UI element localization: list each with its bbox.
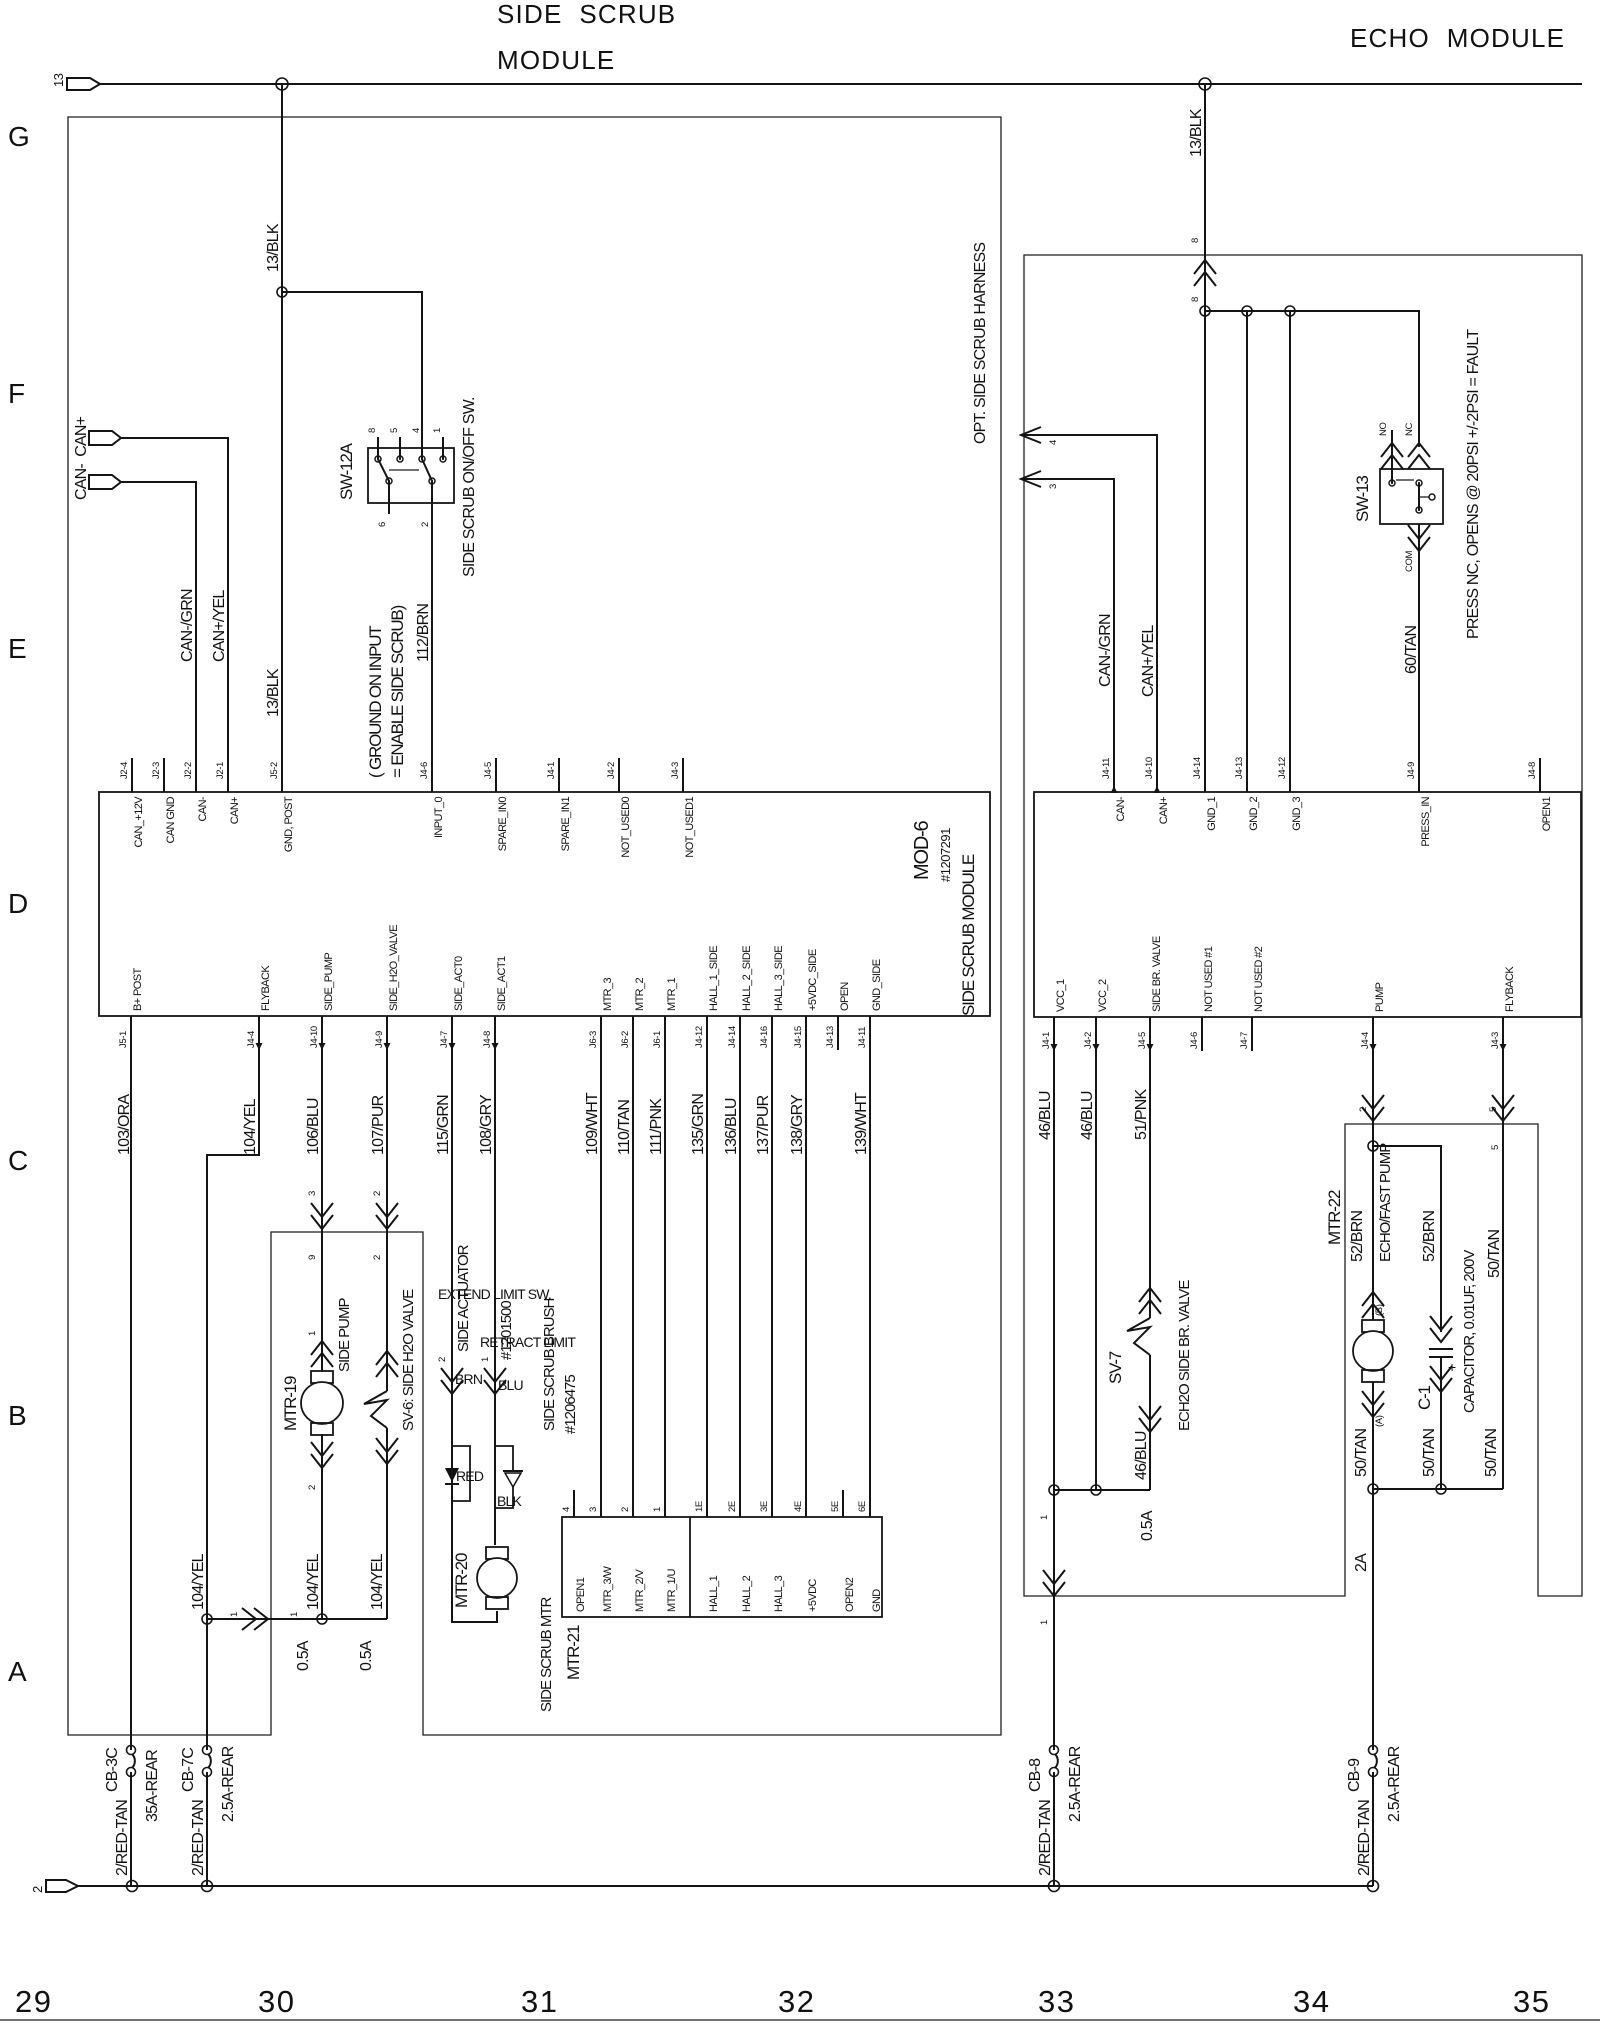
svg-text:J5-1: J5-1: [118, 1031, 129, 1048]
connector chevron below MTR-22: [1362, 1391, 1384, 1417]
SW-12A pin 4 stub: [421, 437, 423, 459]
svg-text:( GROUND ON INPUT: ( GROUND ON INPUT: [366, 626, 385, 778]
svg-text:OPEN: OPEN: [839, 982, 851, 1011]
wire 51/PNK J4-5 to SV-7: [1149, 1017, 1151, 1318]
wire 137/PUR: [771, 1016, 773, 1490]
svg-text:J5-2: J5-2: [269, 762, 280, 779]
connector chevron 106/BLU at pump box: [311, 1203, 333, 1229]
SW-13 NO stub: [1391, 430, 1393, 483]
svg-text:SW-12A: SW-12A: [337, 442, 356, 500]
svg-text:35: 35: [1513, 1984, 1550, 2019]
svg-text:B: B: [8, 1400, 27, 1431]
MOD-6 pin J4-4 (FLYBACK): [258, 1016, 260, 1050]
svg-text:(A): (A): [1374, 1415, 1385, 1427]
svg-text:0.5A: 0.5A: [1139, 1510, 1156, 1541]
svg-text:SIDE BR. VALVE: SIDE BR. VALVE: [1151, 936, 1163, 1012]
svg-text:SIDE SCRUB ON/OFF SW.: SIDE SCRUB ON/OFF SW.: [461, 397, 478, 577]
connector chevron above MTR-22: [1362, 1292, 1384, 1318]
diode BLK bypass branch: [495, 1446, 513, 1471]
svg-text:CAN+: CAN+: [1158, 797, 1170, 824]
wire 46/BLU J4-1 down: [1053, 1017, 1055, 1490]
svg-text:J4-2: J4-2: [1083, 1032, 1094, 1049]
svg-text:3: 3: [588, 1507, 599, 1512]
svg-text:CAN+: CAN+: [229, 797, 241, 824]
svg-text:MTR-20: MTR-20: [452, 1553, 471, 1608]
svg-text:138/GRY: 138/GRY: [789, 1094, 806, 1155]
svg-text:2: 2: [30, 1886, 45, 1893]
connector chevron below SV-6: [376, 1438, 398, 1464]
svg-text:J4-8: J4-8: [482, 1031, 493, 1048]
svg-text:PRESS NC, OPENS @ 20PSI +/-2PS: PRESS NC, OPENS @ 20PSI +/-2PSI = FAULT: [1465, 329, 1482, 639]
svg-text:NC: NC: [1404, 423, 1415, 436]
svg-text:J4-9: J4-9: [374, 1031, 385, 1048]
terminal CAN+ ring: [89, 431, 121, 445]
boundary box echo harness: [1024, 255, 1582, 1596]
ECHO pin J4-5 (SIDE BR. VALVE): [1149, 1017, 1151, 1051]
svg-text:SW-13: SW-13: [1353, 476, 1372, 522]
svg-text:1: 1: [480, 1357, 491, 1362]
MTR-21 pin 4 (OPEN1): [573, 1490, 575, 1517]
svg-text:J6-1: J6-1: [652, 1031, 663, 1048]
svg-text:J4-13: J4-13: [1234, 757, 1245, 779]
svg-text:CAN GND: CAN GND: [165, 796, 177, 843]
svg-text:135/GRN: 135/GRN: [690, 1094, 707, 1155]
ECHO pin J4-14 (GND_1): [1204, 758, 1206, 792]
svg-text:139/WHT: 139/WHT: [853, 1092, 870, 1155]
MOD-6 pin J2-1 (CAN+): [227, 758, 229, 792]
svg-text:52/BRN: 52/BRN: [1349, 1211, 1366, 1262]
wire 106/BLU J4-10 to MTR-19: [321, 1016, 323, 1372]
svg-text:8: 8: [1190, 297, 1201, 302]
MTR-21 pin 2E (HALL_2): [739, 1490, 741, 1517]
junction node VCC_1: [1049, 1485, 1059, 1495]
svg-text:1: 1: [229, 1612, 240, 1617]
svg-text:CB-8: CB-8: [1027, 1758, 1044, 1792]
svg-text:C: C: [8, 1145, 28, 1176]
junction node on net 13 at 13/BLK left drop: [276, 78, 288, 90]
svg-text:110/TAN: 110/TAN: [616, 1100, 633, 1155]
svg-text:PUMP: PUMP: [1374, 982, 1386, 1012]
svg-text:J6-3: J6-3: [588, 1031, 599, 1048]
module ECHO box: [1034, 792, 1581, 1017]
svg-text:J4-12: J4-12: [694, 1026, 705, 1048]
svg-text:112/BRN: 112/BRN: [415, 604, 432, 662]
SW-13 NC wire entry: [1408, 443, 1430, 469]
MOD-6 pin J6-1 (MTR_1): [664, 1016, 666, 1050]
svg-text:1: 1: [652, 1507, 663, 1512]
svg-text:CB-7C: CB-7C: [180, 1748, 197, 1792]
svg-text:SPARE_IN1: SPARE_IN1: [560, 797, 572, 852]
svg-text:2A: 2A: [1353, 1553, 1370, 1572]
svg-text:J4-14: J4-14: [1192, 757, 1203, 779]
motor MTR-20 brush deck actuator: [486, 1547, 508, 1559]
connector MTR-21 box: [562, 1517, 882, 1617]
svg-text:HALL_3_SIDE: HALL_3_SIDE: [773, 946, 785, 1011]
solenoid valve SV-7 coil: [1127, 1318, 1150, 1355]
svg-text:2: 2: [420, 522, 431, 527]
svg-text:SIDE_ACT1: SIDE_ACT1: [496, 956, 508, 1011]
svg-text:CAPACITOR, 0.01UF, 200V: CAPACITOR, 0.01UF, 200V: [1461, 1250, 1478, 1413]
svg-text:RED: RED: [456, 1468, 484, 1484]
svg-text:6E: 6E: [857, 1501, 868, 1512]
wire gnd distribution row: [1205, 311, 1419, 447]
MOD-6 pin J4-1 (SPARE_IN1): [558, 758, 560, 792]
svg-text:109/WHT: 109/WHT: [584, 1092, 601, 1155]
ECHO pin J4-12 (GND_3): [1289, 758, 1291, 792]
MOD-6 pin J4-11 (GND_SIDE): [869, 1016, 871, 1050]
wire 2/RED-TAN below CB-9: [1372, 1772, 1374, 1886]
svg-text:VCC_2: VCC_2: [1097, 979, 1109, 1012]
svg-text:2: 2: [307, 1485, 318, 1490]
svg-text:J2-2: J2-2: [183, 762, 194, 779]
svg-text:31: 31: [521, 1984, 558, 2019]
svg-text:MTR_3/W: MTR_3/W: [602, 1565, 614, 1612]
svg-text:2/RED-TAN: 2/RED-TAN: [190, 1800, 207, 1876]
svg-text:GND_SIDE: GND_SIDE: [871, 959, 883, 1011]
svg-text:2: 2: [620, 1507, 631, 1512]
svg-text:J4-7: J4-7: [1239, 1032, 1250, 1049]
MOD-6 pin J4-14 (HALL_2_SIDE): [739, 1016, 741, 1050]
svg-text:50/TAN: 50/TAN: [1486, 1230, 1503, 1279]
svg-text:BLU: BLU: [498, 1377, 524, 1393]
svg-text:13: 13: [51, 73, 66, 87]
SW-12A pin 6 stub wire: [388, 481, 390, 514]
wire 108/GRY J4-8 actuator retract: [494, 1016, 496, 1446]
MOD-6 pin J4-2 (NOT_USED0): [618, 758, 620, 792]
wire net 13 horizontal bus: [100, 83, 1582, 85]
svg-text:J4-11: J4-11: [1101, 758, 1112, 779]
svg-text:GND_1: GND_1: [1206, 797, 1218, 831]
svg-text:FLYBACK: FLYBACK: [1504, 966, 1516, 1012]
svg-text:CAN_+12V: CAN_+12V: [133, 796, 145, 848]
svg-text:NOT_USED1: NOT_USED1: [684, 797, 696, 858]
svg-text:SPARE_IN0: SPARE_IN0: [497, 797, 509, 852]
svg-text:F: F: [8, 378, 25, 409]
MOD-6 pin J4-6 (INPUT_0): [431, 758, 433, 792]
terminal CAN- ring: [89, 475, 121, 489]
svg-text:GND_2: GND_2: [1248, 797, 1260, 831]
SW-13 terminals: [1389, 480, 1395, 486]
svg-text:SIDE SCRUB: SIDE SCRUB: [497, 0, 676, 29]
svg-text:2: 2: [437, 1357, 448, 1362]
wire 50/TAN capacitor return: [1440, 1357, 1442, 1489]
svg-text:CB-3C: CB-3C: [104, 1748, 121, 1792]
svg-text:J4-7: J4-7: [439, 1031, 450, 1048]
ECHO pin J4-7 (NOT USED #2): [1251, 1017, 1253, 1051]
svg-text:32: 32: [778, 1984, 815, 2019]
svg-text:BRN: BRN: [455, 1371, 482, 1387]
junction row 46/BLU: [1054, 1489, 1150, 1491]
svg-text:J4-3: J4-3: [1490, 1032, 1501, 1049]
svg-text:104/YEL: 104/YEL: [190, 1553, 207, 1610]
svg-text:5: 5: [389, 428, 400, 433]
connector chevron 107/PUR above SV-6: [376, 1351, 398, 1377]
boundary box OPT. SIDE SCRUB HARNESS: [68, 117, 1001, 1735]
svg-text:13/BLK: 13/BLK: [1188, 108, 1205, 157]
svg-text:COM: COM: [1404, 551, 1415, 572]
svg-text:50/TAN: 50/TAN: [1353, 1429, 1370, 1478]
svg-text:OPT. SIDE SCRUB HARNESS: OPT. SIDE SCRUB HARNESS: [972, 243, 989, 444]
svg-text:J4-2: J4-2: [606, 762, 617, 779]
wire 107/PUR J4-9 to SV-6: [386, 1016, 388, 1391]
junction node C-1 return: [1436, 1484, 1446, 1494]
svg-text:C-1: C-1: [1415, 1385, 1434, 1410]
SW-13 actuator lever: [1419, 496, 1429, 498]
connector chevron below C-1: [1430, 1366, 1452, 1392]
svg-text:2: 2: [372, 1191, 383, 1196]
wire 50/TAN MTR-22 return: [1372, 1382, 1374, 1489]
svg-text:51/PNK: 51/PNK: [1133, 1089, 1150, 1140]
svg-text:E: E: [8, 633, 27, 664]
svg-text:J4-1: J4-1: [546, 762, 557, 779]
svg-text:J4-14: J4-14: [727, 1026, 738, 1048]
wire 109/WHT: [600, 1016, 602, 1490]
svg-text:115/GRN: 115/GRN: [435, 1095, 452, 1155]
MOD-6 pin J5-1 (B+ POST): [130, 1016, 132, 1050]
svg-text:SIDE_ACT0: SIDE_ACT0: [453, 956, 465, 1011]
svg-text:4E: 4E: [793, 1501, 804, 1512]
svg-text:1: 1: [1039, 1515, 1050, 1520]
ECHO pin J4-8 (OPEN1): [1539, 758, 1541, 792]
wire CAN-/GRN from terminal to J2-2: [121, 482, 196, 758]
svg-text:J4-15: J4-15: [793, 1026, 804, 1048]
junction node VCC_2: [1091, 1485, 1101, 1495]
svg-text:3: 3: [1048, 484, 1059, 489]
wire 103/ORA J5-1 to CB-3C: [130, 1016, 132, 1750]
svg-text:J4-6: J4-6: [419, 762, 430, 779]
svg-text:1: 1: [432, 428, 443, 433]
svg-text:MTR-19: MTR-19: [281, 1376, 300, 1431]
svg-text:1E: 1E: [694, 1501, 705, 1512]
svg-text:13/BLK: 13/BLK: [265, 223, 282, 272]
breaker CB-8 2.5A-REAR: [1050, 1746, 1059, 1755]
svg-text:104/YEL: 104/YEL: [242, 1098, 259, 1155]
svg-text:MTR_2: MTR_2: [634, 977, 646, 1011]
wire 2A to CB-9: [1372, 1489, 1374, 1750]
svg-text:MTR_3: MTR_3: [602, 977, 614, 1011]
connector chevron 107/PUR at pump box: [376, 1203, 398, 1229]
SW-12A blade pole 2: [422, 459, 432, 481]
junction node net2 CB-8: [1049, 1881, 1060, 1892]
svg-text:35A-REAR: 35A-REAR: [144, 1750, 161, 1822]
svg-text:4: 4: [1048, 440, 1059, 445]
junction node at MTR-19 return: [317, 1614, 327, 1624]
svg-text:J4-8: J4-8: [1527, 762, 1538, 779]
svg-text:137/PUR: 137/PUR: [755, 1095, 772, 1155]
svg-text:107/PUR: 107/PUR: [370, 1095, 387, 1155]
wire FLYBACK J4-3 down: [1502, 1017, 1504, 1489]
net 13 source flag: [67, 78, 100, 90]
svg-text:CAN+/YEL: CAN+/YEL: [211, 590, 228, 662]
connector chevron above SV-7: [1139, 1288, 1161, 1314]
breaker CB-9 2.5A-REAR: [1369, 1746, 1378, 1755]
motor MTR-22 echo/fast pump: [1362, 1320, 1384, 1332]
MOD-6 pin J4-16 (HALL_3_SIDE): [771, 1016, 773, 1050]
svg-text:103/ORA: 103/ORA: [116, 1094, 133, 1155]
MTR-21 pin 3 (MTR_3/W): [600, 1490, 602, 1517]
svg-text:HALL_1: HALL_1: [708, 1575, 720, 1612]
svg-text:46/BLU: 46/BLU: [1133, 1431, 1150, 1480]
svg-text:VCC_1: VCC_1: [1055, 979, 1067, 1012]
svg-text:108/GRY: 108/GRY: [478, 1094, 495, 1155]
svg-text:CAN-/GRN: CAN-/GRN: [1097, 614, 1114, 687]
svg-text:50/TAN: 50/TAN: [1421, 1429, 1438, 1478]
SW-12A pin 8 stub: [377, 437, 379, 459]
wire extend to MTR-20 bottom: [452, 1446, 497, 1622]
MTR-21 pin 2 (MTR_2/V): [632, 1490, 634, 1517]
diode RED bypass loop: [452, 1446, 470, 1501]
MOD-6 pin J6-3 (MTR_3): [600, 1016, 602, 1050]
svg-text:J4-4: J4-4: [1360, 1032, 1371, 1049]
wire MTR-19 return to row: [321, 1434, 323, 1619]
wire 2/RED-TAN below CB-8: [1053, 1772, 1055, 1886]
junction node gnd row at 13/BLK: [1200, 306, 1210, 316]
svg-text:0.5A: 0.5A: [358, 1640, 375, 1671]
svg-text:1: 1: [289, 1612, 300, 1617]
svg-text:J2-4: J2-4: [119, 762, 130, 779]
svg-text:HALL_2_SIDE: HALL_2_SIDE: [741, 946, 753, 1011]
svg-text:OPEN2: OPEN2: [844, 1577, 856, 1612]
svg-text:SIDE SCRUB BRUSH: SIDE SCRUB BRUSH: [541, 1298, 558, 1431]
connector chevron below SV-7: [1139, 1406, 1161, 1432]
MTR-21 pin 6E (GND): [869, 1490, 871, 1517]
svg-text:33: 33: [1038, 1984, 1075, 2019]
svg-text:= ENABLE SIDE SCRUB): = ENABLE SIDE SCRUB): [388, 605, 407, 778]
svg-text:J4-16: J4-16: [759, 1026, 770, 1048]
svg-text:5E: 5E: [830, 1501, 841, 1512]
connector chevron PUMP into pump assy: [1362, 1095, 1384, 1121]
MOD-6 pin J4-7 (SIDE_ACT0): [451, 1016, 453, 1050]
svg-text:111/PNK: 111/PNK: [648, 1098, 665, 1155]
ECHO pin J4-2 (VCC_2): [1095, 1017, 1097, 1051]
capacitor C-1: [1429, 1348, 1453, 1350]
SW-12A pin 2 wire 112/BRN to MOD-6 J4-6: [431, 481, 433, 758]
svg-text:B+ POST: B+ POST: [132, 968, 144, 1011]
breaker CB-7C 2.5A-REAR: [203, 1746, 212, 1755]
svg-text:6: 6: [377, 522, 388, 527]
svg-text:3: 3: [307, 1191, 318, 1196]
MTR-21 pin 4E (+5VDC): [805, 1490, 807, 1517]
svg-text:J6-2: J6-2: [620, 1031, 631, 1048]
wire CAN+/YEL from terminal to J2-1: [121, 438, 228, 758]
svg-text:A: A: [8, 1656, 27, 1687]
svg-text:CAN-: CAN-: [197, 796, 209, 821]
svg-text:106/BLU: 106/BLU: [305, 1098, 322, 1155]
svg-text:2.5A-REAR: 2.5A-REAR: [1067, 1746, 1084, 1822]
connector chevron 106/BLU above MTR-19: [311, 1341, 333, 1367]
svg-text:HALL_3: HALL_3: [773, 1575, 785, 1612]
svg-text:BLK: BLK: [497, 1493, 523, 1509]
svg-text:(B): (B): [1374, 1304, 1385, 1316]
MOD-6 pin J4-10 (SIDE_PUMP): [321, 1016, 323, 1050]
svg-text:J4-1: J4-1: [1041, 1032, 1052, 1049]
svg-text:8: 8: [367, 428, 378, 433]
junction node MTR-22 return: [1368, 1484, 1378, 1494]
svg-text:J4-5: J4-5: [1137, 1032, 1148, 1049]
svg-text:HALL_2: HALL_2: [741, 1575, 753, 1612]
wire 13/BLK right drop to ECHO J4-14: [1204, 84, 1206, 792]
svg-text:OPEN1: OPEN1: [575, 1577, 587, 1612]
MOD-6 pin J4-3 (NOT_USED1): [682, 758, 684, 792]
svg-text:ECH2O SIDE BR. VALVE: ECH2O SIDE BR. VALVE: [1176, 1280, 1193, 1431]
wire 2/RED-TAN below CB-7C: [206, 1772, 208, 1886]
pressure switch SW-13 box: [1380, 469, 1443, 524]
svg-text:MODULE: MODULE: [497, 45, 615, 75]
wire net 2 bottom bus: [78, 1885, 1373, 1887]
svg-text:CAN+/YEL: CAN+/YEL: [1140, 625, 1157, 697]
svg-text:J4-13: J4-13: [825, 1026, 836, 1048]
svg-text:G: G: [8, 121, 30, 152]
svg-text:CAN- CAN+: CAN- CAN+: [73, 416, 90, 500]
svg-text:29: 29: [15, 1984, 52, 2019]
svg-text:30: 30: [258, 1984, 295, 2019]
junction node gnd row GND_3: [1285, 306, 1295, 316]
svg-text:SV-6: SIDE H2O VALVE: SV-6: SIDE H2O VALVE: [400, 1289, 417, 1431]
svg-text:4: 4: [411, 428, 422, 433]
wire 110/TAN: [632, 1016, 634, 1490]
ECHO pin J4-10 (CAN+): [1156, 758, 1158, 792]
svg-text:MTR-22: MTR-22: [1325, 1190, 1344, 1245]
MOD-6 pin J4-15 (+5VDC_SIDE): [805, 1016, 807, 1050]
page bottom rule: [0, 2019, 1600, 2021]
MTR-21 pin 3E (HALL_3): [771, 1490, 773, 1517]
svg-text:HALL_1_SIDE: HALL_1_SIDE: [708, 946, 720, 1011]
wire 46/BLU J4-2 down: [1095, 1017, 1097, 1490]
svg-text:SIDE SCRUB MTR: SIDE SCRUB MTR: [538, 1596, 555, 1712]
svg-text:#1207291: #1207291: [938, 828, 953, 882]
wire 104/YEL distribution row: [207, 1618, 387, 1620]
svg-text:2/RED-TAN: 2/RED-TAN: [1037, 1800, 1054, 1876]
connector chevron FLYBACK into pump assy: [1492, 1095, 1514, 1121]
svg-text:NOT_USED0: NOT_USED0: [620, 797, 632, 858]
MOD-6 pin J4-13 (OPEN): [837, 1016, 839, 1050]
MOD-6 pin J4-5 (SPARE_IN0): [495, 758, 497, 792]
wire CAN+ (4) from boundary to J4-10: [1024, 435, 1157, 792]
MTR-21 pin 5E (OPEN2): [842, 1490, 844, 1517]
wire 46/BLU SV-7 return: [1149, 1355, 1151, 1490]
svg-text:J4-6: J4-6: [1189, 1032, 1200, 1049]
SW-13 blade: [1418, 483, 1420, 510]
svg-text:CAN-/GRN: CAN-/GRN: [179, 589, 196, 662]
wire 104/YEL J4-4 jog: [207, 1016, 259, 1750]
wire PUMP J4-4 down: [1372, 1017, 1374, 1320]
svg-text:2E: 2E: [727, 1501, 738, 1512]
svg-text:#1201500: #1201500: [498, 1301, 515, 1360]
svg-text:SV-7: SV-7: [1106, 1351, 1125, 1384]
svg-text:3E: 3E: [759, 1501, 770, 1512]
MOD-6 pin J4-12 (HALL_1_SIDE): [706, 1016, 708, 1050]
svg-text:CB-9: CB-9: [1346, 1758, 1363, 1792]
svg-text:MTR-21: MTR-21: [564, 1625, 583, 1680]
svg-text:2.5A-REAR: 2.5A-REAR: [1386, 1746, 1403, 1822]
MTR-21 pin 1 (MTR_1/U): [664, 1490, 666, 1517]
junction node net2 CB-7C: [202, 1881, 213, 1892]
junction node on net 13 at 13/BLK right drop: [1199, 78, 1211, 90]
SW-12A pin 1 stub: [442, 437, 444, 459]
svg-text:SIDE_H2O_VALVE: SIDE_H2O_VALVE: [388, 925, 400, 1011]
svg-text:J4-5: J4-5: [483, 762, 494, 779]
wire SV-6 return to row: [386, 1428, 388, 1619]
MOD-6 pin J2-4 (CAN_+12V): [131, 758, 133, 792]
ECHO pin J4-13 (GND_2): [1246, 758, 1248, 792]
SW-12A terminals: [375, 456, 381, 462]
breaker CB-3C 35A-REAR: [127, 1746, 136, 1755]
svg-text:J4-10: J4-10: [1144, 757, 1155, 779]
svg-text:136/BLU: 136/BLU: [723, 1098, 740, 1155]
module MOD-6 box: [99, 792, 990, 1016]
connector chevron 13/BLK into echo harness: [1194, 260, 1216, 286]
svg-text:PRESS_IN: PRESS_IN: [1420, 796, 1432, 846]
